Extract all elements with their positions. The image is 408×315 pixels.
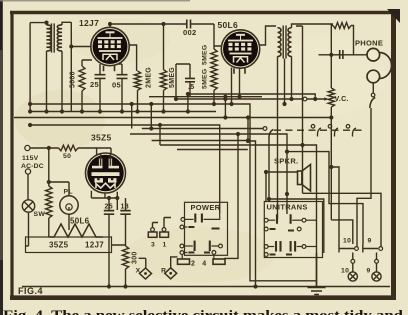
svg-text:V.C.: V.C. [335, 96, 349, 103]
svg-text:10: 10 [343, 238, 351, 245]
svg-text:3: 3 [151, 242, 155, 249]
svg-text:2: 2 [191, 261, 195, 268]
svg-text:35Z5: 35Z5 [91, 133, 112, 143]
svg-text:50L6: 50L6 [70, 217, 90, 226]
svg-text:5MEG: 5MEG [202, 69, 209, 89]
svg-text:12J7: 12J7 [85, 241, 104, 250]
svg-text:.5: .5 [188, 84, 194, 91]
svg-text:SPKR.: SPKR. [274, 157, 298, 166]
svg-text:SW: SW [34, 211, 46, 218]
svg-text:9: 9 [367, 268, 371, 275]
svg-text:1: 1 [163, 242, 167, 249]
svg-text:18: 18 [121, 204, 129, 211]
svg-text:50: 50 [63, 153, 71, 160]
svg-text:PL: PL [64, 189, 73, 196]
svg-text:4: 4 [202, 261, 206, 268]
svg-text:X: X [136, 267, 141, 274]
svg-text:R: R [161, 267, 166, 274]
svg-text:12J7: 12J7 [79, 18, 99, 28]
svg-text:5000: 5000 [70, 71, 77, 88]
svg-text:10: 10 [341, 268, 349, 275]
svg-text:50L6: 50L6 [218, 20, 239, 30]
svg-text:POWER: POWER [191, 203, 221, 212]
svg-text:25: 25 [105, 204, 113, 211]
svg-text:AC-DC: AC-DC [21, 163, 44, 170]
svg-text:5MEG: 5MEG [202, 45, 209, 65]
svg-text:115V: 115V [22, 155, 39, 162]
svg-text:5MEG: 5MEG [169, 67, 176, 88]
svg-text:FIG.4: FIG.4 [18, 286, 43, 296]
svg-text:2MEG: 2MEG [146, 67, 153, 88]
svg-text:Fig. 4. The a new selectiv: Fig. 4. The a new selective circuit make… [3, 308, 404, 315]
svg-text:05: 05 [112, 81, 121, 90]
svg-text:PHONE: PHONE [355, 39, 383, 48]
svg-text:300: 300 [132, 251, 139, 264]
svg-text:35Z5: 35Z5 [49, 241, 69, 250]
svg-text:9: 9 [368, 238, 372, 245]
svg-text:002: 002 [183, 28, 196, 37]
svg-text:25: 25 [90, 80, 99, 89]
svg-text:UNITRANS: UNITRANS [267, 203, 308, 212]
